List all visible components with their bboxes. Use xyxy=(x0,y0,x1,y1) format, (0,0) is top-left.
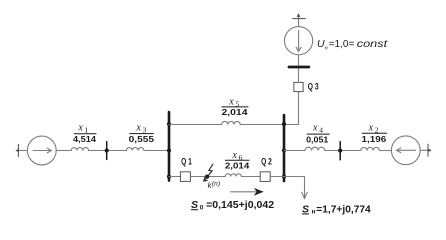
generator G1 (left) xyxy=(27,136,56,165)
reactor x1 coil xyxy=(71,148,88,151)
right bus bar xyxy=(283,115,286,181)
wire Q3 to corner xyxy=(298,92,300,125)
junction dot right bus / x4 branch xyxy=(282,148,286,152)
svg-text:x: x xyxy=(368,122,374,133)
svg-text:Q 1: Q 1 xyxy=(181,156,192,166)
reactor x4 coil xyxy=(305,147,325,150)
svg-text:0,555: 0,555 xyxy=(129,135,155,144)
generator G2 (right) xyxy=(391,136,420,165)
load drop wire xyxy=(304,177,306,197)
svg-text:1: 1 xyxy=(85,126,89,135)
svg-text:0,051: 0,051 xyxy=(306,136,329,145)
junction dot right bus / x5 branch xyxy=(282,122,286,126)
label S0 = 0,145+j0,042 xyxy=(191,199,274,211)
wire Q1 to reactor x6 (through fault point) xyxy=(190,176,225,178)
value label x4 / 0,051 xyxy=(306,123,329,145)
wire x5 to right bus and Q3 drop corner xyxy=(240,124,298,126)
label Uн = 1,0 = const xyxy=(317,38,389,51)
svg-text:0: 0 xyxy=(200,204,204,211)
node tick between x4 and x2 xyxy=(338,142,342,160)
svg-text:x: x xyxy=(312,123,318,134)
power flow arrow under x6 xyxy=(231,188,264,196)
switch Q1 xyxy=(180,172,190,182)
svg-text:x: x xyxy=(228,97,234,108)
svg-text:x: x xyxy=(231,150,237,161)
label k(n) xyxy=(208,181,221,190)
value label x2 / 1,196 xyxy=(362,122,387,144)
svg-text:=1,0=: =1,0= xyxy=(329,38,355,50)
wire bar to source circle xyxy=(298,55,300,66)
system connection arrow right of G2 xyxy=(420,144,432,156)
svg-text:=0,145+j0,042: =0,145+j0,042 xyxy=(206,199,274,211)
svg-text:н: н xyxy=(312,209,316,216)
svg-text:1,196: 1,196 xyxy=(362,135,387,144)
svg-text:=1,7+j0,774: =1,7+j0,774 xyxy=(316,203,371,215)
svg-text:const: const xyxy=(357,39,389,50)
wire Q3 to source bar xyxy=(298,69,300,83)
reactor x2 coil xyxy=(361,147,380,150)
load arrowhead down xyxy=(302,192,308,198)
junction dot left bus / main line xyxy=(167,148,171,152)
switch Q3 xyxy=(294,82,303,91)
system connection arrow above source U xyxy=(293,13,306,27)
reactor x3 coil xyxy=(127,148,144,151)
reactor x5 coil xyxy=(222,121,241,124)
wire x6 to switch Q2 xyxy=(241,176,260,178)
value label x6 / 2,014 xyxy=(225,150,250,171)
svg-text:2,014: 2,014 xyxy=(222,108,249,117)
wire left bus to switch Q1 xyxy=(169,176,180,178)
fault lightning arrow xyxy=(204,164,213,181)
svg-text:x: x xyxy=(135,123,141,134)
system connection arrow left of G1 xyxy=(15,144,27,156)
svg-text:2,014: 2,014 xyxy=(225,162,250,171)
value label x3 / 0,555 xyxy=(129,123,155,144)
wire x4 to node tick xyxy=(325,150,361,152)
wire Q2 to right bus xyxy=(270,176,284,178)
svg-text:4: 4 xyxy=(319,126,323,135)
svg-text:S: S xyxy=(191,199,198,211)
wire x3 to left bus xyxy=(144,150,169,152)
svg-text:x: x xyxy=(77,123,83,134)
terminal bar below source U xyxy=(289,66,309,69)
node tick between x1 and x3 xyxy=(105,142,109,160)
value label x1 / 4,514 xyxy=(73,123,97,144)
svg-text:4,514: 4,514 xyxy=(73,135,97,144)
svg-text:н: н xyxy=(325,45,328,51)
junction dot left bus / x6 branch xyxy=(167,175,171,179)
wire left bus to reactor x5 xyxy=(169,124,222,126)
svg-text:(n): (n) xyxy=(212,181,220,188)
voltage source U (circle with down arrow) xyxy=(285,27,313,55)
reactor x6 coil xyxy=(225,174,241,177)
wire right bus to load corner xyxy=(284,176,305,178)
label Sн = 1,7+j0,774 xyxy=(302,203,371,215)
wire x2 to G2 xyxy=(379,150,391,152)
left bus bar xyxy=(168,112,171,181)
wire G1 to reactor x1 xyxy=(56,150,71,152)
svg-text:Q 2: Q 2 xyxy=(261,156,272,166)
wire right bus to reactor x4 xyxy=(284,150,305,152)
fault point dot k(n) xyxy=(205,175,209,179)
value label x5 / 2,014 xyxy=(222,97,249,118)
switch Q2 xyxy=(260,172,270,182)
svg-text:Q 3: Q 3 xyxy=(308,82,319,92)
svg-text:S: S xyxy=(302,203,309,215)
junction dot right bus / x6 branch xyxy=(282,175,286,179)
wire x1 to node tick xyxy=(89,150,127,152)
junction dot left bus / x5 branch xyxy=(167,122,171,126)
